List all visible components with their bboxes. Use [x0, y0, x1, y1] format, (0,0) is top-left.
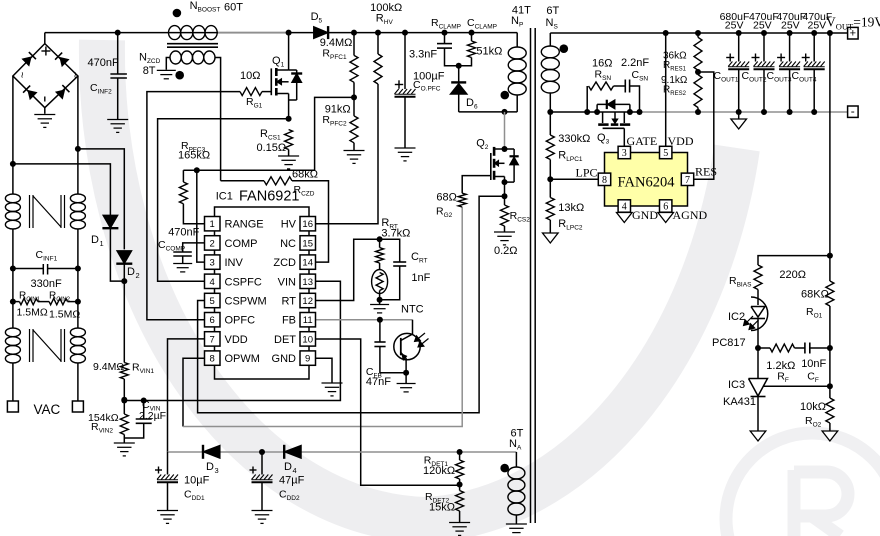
svg-text:3: 3	[622, 148, 627, 159]
svg-text:120kΩ: 120kΩ	[423, 465, 455, 477]
svg-text:68Ω: 68Ω	[436, 192, 456, 204]
svg-text:15kΩ: 15kΩ	[429, 502, 455, 514]
svg-text:KA431: KA431	[723, 396, 756, 408]
svg-text:GND: GND	[272, 353, 297, 365]
svg-text:11: 11	[303, 315, 313, 326]
svg-text:8: 8	[210, 354, 215, 365]
svg-text:47nF: 47nF	[366, 376, 391, 388]
svg-text:2.2nF: 2.2nF	[621, 57, 649, 69]
svg-text:13kΩ: 13kΩ	[558, 202, 584, 214]
svg-text:9.4MΩ: 9.4MΩ	[93, 361, 124, 373]
svg-text:2: 2	[210, 238, 215, 249]
svg-text:OPWM: OPWM	[225, 353, 260, 365]
svg-text:PC817: PC817	[712, 337, 746, 349]
svg-text:OPFC: OPFC	[225, 315, 256, 327]
svg-text:CSPWM: CSPWM	[225, 296, 267, 308]
svg-text:13: 13	[302, 277, 313, 288]
svg-text:5: 5	[210, 296, 215, 307]
svg-text:1: 1	[100, 239, 104, 248]
svg-text:60T: 60T	[224, 2, 243, 14]
svg-text:D: D	[127, 266, 135, 278]
svg-text:AGND: AGND	[673, 208, 708, 222]
svg-text:8T: 8T	[143, 65, 156, 77]
svg-text:-: -	[851, 104, 855, 118]
svg-text:330kΩ: 330kΩ	[558, 133, 590, 145]
svg-text:~: ~	[16, 72, 28, 78]
svg-text:47µF: 47µF	[279, 475, 305, 487]
svg-text:CSPFC: CSPFC	[225, 276, 262, 288]
svg-text:LPC: LPC	[575, 166, 597, 180]
svg-text:VDD: VDD	[225, 334, 248, 346]
svg-text:1: 1	[210, 219, 215, 230]
svg-text:3.7kΩ: 3.7kΩ	[381, 228, 410, 240]
svg-text:470nF: 470nF	[168, 227, 199, 239]
svg-text:14: 14	[302, 258, 313, 269]
svg-text:470nF: 470nF	[88, 57, 119, 69]
svg-text:25V: 25V	[808, 20, 827, 32]
svg-text:15: 15	[302, 238, 313, 249]
svg-text:25V: 25V	[725, 20, 744, 32]
svg-text:25V: 25V	[753, 20, 772, 32]
svg-text:3.3nF: 3.3nF	[409, 49, 437, 61]
svg-text:2.2µF: 2.2µF	[139, 410, 166, 422]
svg-text:3: 3	[215, 466, 219, 475]
svg-text:D: D	[206, 461, 214, 473]
svg-text:VDD: VDD	[668, 134, 694, 148]
svg-text:6T: 6T	[546, 5, 559, 17]
svg-text:25V: 25V	[781, 20, 800, 32]
svg-text:10kΩ: 10kΩ	[800, 401, 826, 413]
svg-text:GATE: GATE	[627, 134, 658, 148]
svg-text:COMP: COMP	[225, 238, 258, 250]
svg-text:FAN6921: FAN6921	[239, 189, 299, 205]
svg-text:0.15Ω: 0.15Ω	[257, 142, 287, 154]
svg-text:10Ω: 10Ω	[240, 70, 260, 82]
svg-text:INV: INV	[225, 257, 244, 269]
svg-text:7: 7	[685, 175, 690, 186]
svg-text:16: 16	[302, 219, 313, 230]
svg-text:7: 7	[210, 334, 215, 345]
svg-text:D: D	[91, 234, 99, 246]
svg-text:6: 6	[663, 202, 668, 213]
svg-text:5: 5	[663, 148, 668, 159]
svg-text:HV: HV	[281, 219, 297, 231]
svg-text:NC: NC	[280, 238, 296, 250]
svg-text:RANGE: RANGE	[225, 219, 264, 231]
svg-text:FB: FB	[282, 315, 296, 327]
svg-text:10: 10	[302, 334, 313, 345]
svg-text:220Ω: 220Ω	[779, 269, 806, 281]
svg-text:VAC: VAC	[34, 402, 61, 417]
svg-text:RT: RT	[282, 296, 297, 308]
svg-text:10µF: 10µF	[184, 475, 210, 487]
svg-text:10nF: 10nF	[801, 358, 826, 370]
svg-text:RES: RES	[695, 165, 717, 179]
svg-text:IC3: IC3	[728, 379, 745, 391]
svg-text:68KΩ: 68KΩ	[801, 289, 829, 301]
svg-text:GND: GND	[632, 208, 658, 222]
svg-text:D: D	[284, 461, 292, 473]
svg-text:+: +	[850, 28, 856, 40]
svg-text:DET: DET	[274, 334, 296, 346]
svg-text:2: 2	[136, 271, 140, 280]
svg-text:1.5MΩ: 1.5MΩ	[17, 307, 48, 319]
svg-text:51kΩ: 51kΩ	[476, 46, 502, 58]
svg-text:IC1: IC1	[216, 191, 233, 203]
svg-text:1.5MΩ: 1.5MΩ	[49, 309, 80, 321]
svg-text:165kΩ: 165kΩ	[178, 150, 210, 162]
svg-text:6: 6	[210, 315, 215, 326]
svg-text:4: 4	[210, 277, 215, 288]
svg-text:ZCD: ZCD	[273, 257, 296, 269]
svg-text:330nF: 330nF	[31, 278, 62, 290]
svg-text:3: 3	[210, 258, 215, 269]
svg-text:1nF: 1nF	[411, 272, 430, 284]
svg-text:FAN6204: FAN6204	[618, 175, 676, 191]
svg-text:0.2Ω: 0.2Ω	[494, 245, 518, 257]
svg-text:NTC: NTC	[401, 304, 424, 316]
svg-text:4: 4	[622, 202, 627, 213]
svg-text:VIN: VIN	[278, 276, 296, 288]
svg-text:12: 12	[302, 296, 313, 307]
svg-text:8: 8	[602, 175, 607, 186]
svg-text:9: 9	[305, 354, 310, 365]
svg-text:IC2: IC2	[728, 311, 745, 323]
